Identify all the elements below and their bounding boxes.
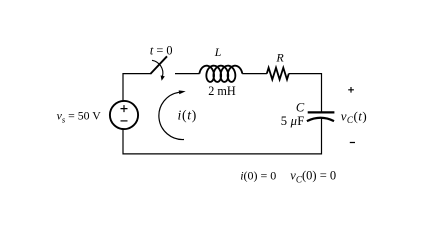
- capacitor C top plate: [308, 111, 335, 113]
- source minus sign: [121, 120, 128, 122]
- switch closing motion arc: [152, 60, 163, 76]
- mesh current i(t) arc: [159, 92, 184, 139]
- svg-text:vC(t): vC(t): [341, 109, 367, 126]
- resistor R zigzag: [267, 68, 289, 80]
- svg-text:L: L: [214, 45, 222, 59]
- source plus sign: [121, 105, 128, 112]
- voltage source VS circle: [110, 101, 138, 129]
- wire: inductor to resistor: [242, 73, 267, 75]
- wire: capacitor down, bottom wire, up to source: [123, 118, 322, 153]
- svg-text:t = 0: t = 0: [150, 43, 173, 57]
- svg-text:i(t): i(t): [178, 108, 197, 124]
- switch arrowhead: [161, 75, 165, 80]
- capacitor plus polarity: [348, 87, 354, 93]
- wire: resistor to top-right corner, down to capacitor: [289, 74, 322, 112]
- capacitor minus polarity: [350, 142, 355, 144]
- svg-text:vs = 50 V: vs = 50 V: [57, 109, 102, 125]
- wire: left vertical + top wire to switch pivot: [123, 74, 150, 102]
- wire: switch right contact to inductor: [175, 73, 200, 75]
- inductor L coil: [199, 66, 242, 82]
- i(t) arrowhead: [179, 90, 186, 94]
- svg-text:i(0) = 0: i(0) = 0: [240, 169, 276, 183]
- svg-text:2 mH: 2 mH: [208, 84, 236, 98]
- switch SW blade: [150, 56, 167, 74]
- svg-text:R: R: [275, 51, 284, 65]
- svg-text:5 μF: 5 μF: [281, 114, 305, 128]
- svg-text:C: C: [296, 100, 305, 114]
- capacitor C curved plate: [307, 118, 334, 121]
- svg-text:vC(0) = 0: vC(0) = 0: [290, 169, 336, 185]
